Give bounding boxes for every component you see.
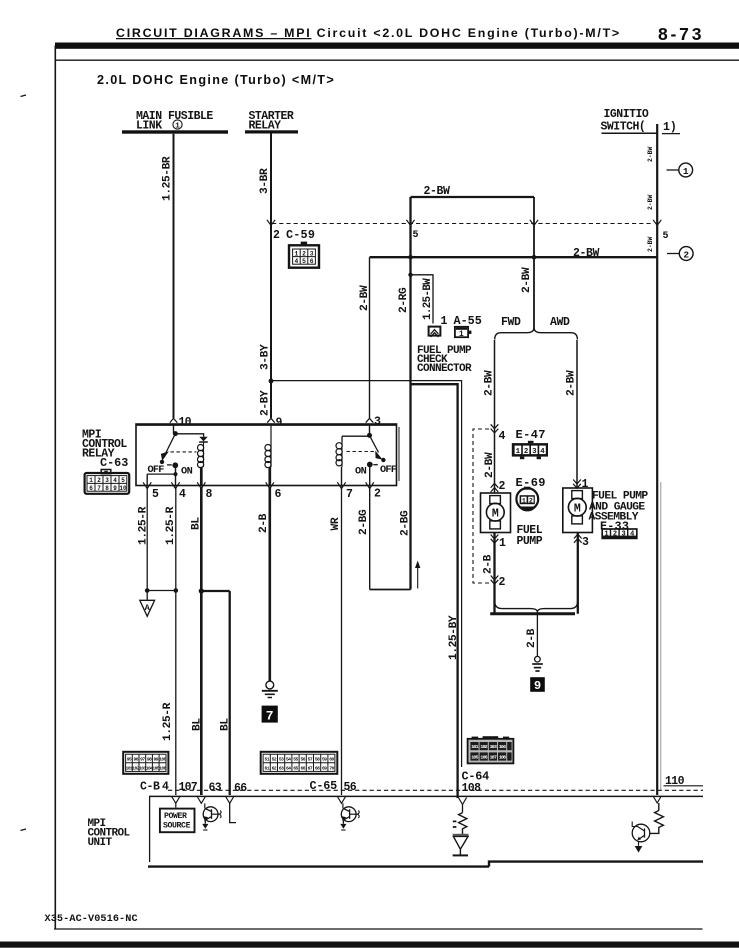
- svg-text:2.0L DOHC Engine (Turbo) <M/T>: 2.0L DOHC Engine (Turbo) <M/T>: [97, 73, 335, 87]
- svg-text:C-B: C-B: [140, 781, 160, 794]
- wire ON contact right down to pin 2: [369, 465, 371, 486]
- svg-text:BL: BL: [190, 517, 202, 530]
- ON contact dot left: [172, 462, 178, 468]
- svg-text:98: 98: [147, 757, 152, 763]
- ground symbol below bus: [532, 656, 543, 671]
- svg-text:57: 57: [308, 757, 313, 763]
- wire 1.25-BR from main fusible link to relay pin 10: [173, 134, 175, 418]
- common node dot left: [173, 431, 178, 436]
- svg-text:1: 1: [441, 315, 448, 328]
- svg-text:OFF: OFF: [380, 464, 397, 476]
- circled 1 at main fusible link: [173, 120, 182, 131]
- svg-text:CONNECTOR: CONNECTOR: [417, 363, 472, 375]
- svg-text:BL: BL: [220, 718, 232, 731]
- svg-text:5: 5: [413, 230, 419, 241]
- ground triangle A: [140, 591, 155, 617]
- svg-text:2: 2: [529, 497, 533, 504]
- chevron pin 107: [172, 797, 180, 804]
- wire 2-BW FWD branch: [494, 340, 496, 493]
- thick wire coil middle to pin 6: [268, 467, 271, 486]
- svg-text:2: 2: [97, 477, 101, 484]
- underline at 110: [664, 785, 704, 787]
- svg-text:2-BW: 2-BW: [647, 146, 654, 162]
- svg-text:1: 1: [459, 331, 464, 339]
- svg-text:66: 66: [300, 765, 305, 771]
- svg-text:BL: BL: [191, 718, 203, 731]
- connector C-63 icon: [85, 470, 130, 494]
- chevron relay pin 2: [366, 482, 374, 488]
- border left: [54, 46, 56, 930]
- svg-text:70: 70: [329, 765, 334, 771]
- svg-text:6: 6: [275, 488, 282, 501]
- svg-text:1: 1: [89, 477, 93, 484]
- relay coil left: [198, 442, 204, 468]
- circled terminal 2: [667, 247, 693, 261]
- chevron relay pin 4: [171, 482, 179, 488]
- fuel pump bottom bus line upper: [495, 601, 578, 612]
- svg-text:97: 97: [140, 757, 145, 763]
- fuel pump check connector A-55 text: [417, 314, 482, 375]
- svg-text:4: 4: [540, 448, 545, 456]
- svg-text:1: 1: [499, 537, 506, 550]
- svg-text:3: 3: [621, 531, 625, 539]
- wire BL branch down to pin 66: [229, 591, 231, 795]
- connector icon C-65: [261, 752, 338, 774]
- circled terminal 1: [667, 163, 693, 177]
- svg-text:62: 62: [272, 765, 277, 771]
- wire 2-BG pin 2 down: [369, 487, 371, 590]
- relay coil middle: [265, 445, 271, 468]
- svg-text:108: 108: [462, 782, 482, 795]
- svg-text:3: 3: [532, 448, 537, 456]
- wire BL pin 8 down to pin 63: [200, 487, 203, 796]
- svg-text:4: 4: [630, 531, 634, 539]
- svg-text:60: 60: [329, 757, 334, 763]
- svg-text:2: 2: [524, 448, 528, 456]
- svg-text:1.25-R: 1.25-R: [162, 702, 174, 741]
- svg-text:67: 67: [308, 765, 313, 771]
- wire ON contact down to pin 4: [175, 465, 177, 485]
- dashed enclosure FWD fuel pump: [473, 429, 489, 583]
- svg-text:54: 54: [286, 757, 291, 763]
- svg-text:4: 4: [499, 430, 506, 443]
- svg-text:58: 58: [315, 757, 320, 763]
- wire 3-BY from C-59 down: [270, 224, 272, 382]
- svg-text:10: 10: [119, 485, 127, 492]
- switch blade left with arrowhead: [161, 434, 176, 461]
- svg-text:2-BW: 2-BW: [566, 370, 578, 396]
- svg-text:7: 7: [266, 708, 274, 723]
- wire 2-B drop to ground: [536, 611, 538, 656]
- svg-text:2: 2: [374, 488, 381, 501]
- svg-text:2-BW: 2-BW: [484, 452, 496, 478]
- svg-text:1: 1: [683, 166, 689, 177]
- svg-text:63: 63: [279, 765, 284, 771]
- junction dot 2-RG x bus: [408, 255, 413, 260]
- svg-text:52: 52: [272, 757, 277, 763]
- MPI control unit box top: [149, 795, 703, 797]
- wire branch thin to x=461.5: [271, 381, 462, 767]
- svg-text:9: 9: [113, 485, 117, 492]
- svg-text:2: 2: [273, 229, 280, 242]
- fuel pump bottom bus line lower: [490, 612, 575, 615]
- common node dot right: [367, 433, 372, 438]
- svg-text:51: 51: [264, 757, 269, 763]
- svg-text:WR: WR: [330, 517, 342, 530]
- resistor pin 110: [650, 803, 664, 833]
- wire 2-BW AWD branch: [576, 340, 578, 488]
- resistor pin 108: [453, 805, 467, 836]
- current arrow up beside trunk: [415, 561, 420, 589]
- svg-text:64: 64: [286, 765, 291, 771]
- svg-text:2-BW: 2-BW: [573, 247, 600, 260]
- chevron double up at AWD pin 3: [574, 534, 582, 543]
- relay coil right: [336, 443, 342, 468]
- junction dot pin4 wire: [174, 588, 179, 593]
- border bottom: [54, 928, 703, 930]
- chevron on 2-RG at C-59 line: [406, 220, 414, 226]
- border top thin line: [55, 59, 739, 61]
- svg-text:65: 65: [293, 765, 298, 771]
- svg-text:61: 61: [264, 765, 269, 771]
- svg-text:1: 1: [604, 531, 608, 539]
- svg-text:5: 5: [152, 488, 159, 501]
- MPI control unit connector dashed line: [168, 789, 703, 791]
- svg-text:10: 10: [179, 416, 192, 429]
- connector C-59 dashed line: [272, 223, 651, 225]
- wire 1.25-R pin 4 down to pin 107: [175, 487, 177, 796]
- svg-text:4: 4: [113, 477, 117, 484]
- wire 2-BW top segment: [411, 196, 535, 198]
- svg-text:1.25-BY: 1.25-BY: [448, 615, 460, 660]
- svg-text:A-55: A-55: [454, 314, 482, 328]
- svg-text:6: 6: [310, 258, 314, 265]
- svg-text:2: 2: [683, 249, 689, 260]
- switch blade right with arrowhead: [370, 435, 383, 459]
- svg-text:5: 5: [121, 477, 125, 484]
- chevron on trunk at C-59 line: [530, 220, 538, 226]
- svg-text:2-RG: 2-RG: [398, 287, 410, 313]
- wire pin 5 inside relay: [146, 474, 148, 485]
- chevron double down at dashed box exit pin 2: [491, 576, 499, 585]
- OFF contact dot right: [381, 458, 385, 462]
- junction dot trunk x bus: [532, 255, 537, 260]
- svg-text:1.25-BW: 1.25-BW: [422, 278, 434, 320]
- svg-text:A: A: [145, 603, 151, 613]
- svg-text:106: 106: [159, 765, 167, 771]
- chevron relay pin 10: [170, 418, 178, 422]
- link pin2 wire to 2-RG trunk: [370, 589, 411, 591]
- svg-text:8-73: 8-73: [658, 24, 704, 44]
- chevron double down at AWD pump pin 1: [573, 480, 581, 489]
- svg-text:1: 1: [175, 123, 180, 131]
- crossbar pin5 to pin4 wire: [147, 473, 175, 475]
- BL branch crossbar: [201, 590, 229, 592]
- svg-text:107: 107: [490, 754, 497, 760]
- junction dot on pin4 wire: [174, 472, 178, 476]
- wire below FWD motor: [493, 533, 495, 614]
- svg-text:PUMP: PUMP: [517, 535, 543, 548]
- svg-text:2: 2: [613, 531, 617, 539]
- chevron pin 56: [337, 797, 345, 804]
- fuel pump and gauge assembly label: [589, 491, 649, 534]
- svg-text:5: 5: [663, 231, 669, 242]
- chevron double down at E-47 pin 4: [491, 424, 499, 433]
- svg-text:68: 68: [315, 765, 320, 771]
- svg-text:POWER: POWER: [164, 812, 187, 821]
- svg-text:1: 1: [516, 448, 521, 456]
- svg-text:3-BY: 3-BY: [260, 344, 272, 370]
- junction dot BL branch: [199, 588, 204, 593]
- svg-text:4: 4: [295, 258, 299, 265]
- svg-text:CIRCUIT DIAGRAMS – MPI Circuit: CIRCUIT DIAGRAMS – MPI Circuit <2.0L DOH…: [116, 26, 621, 40]
- wire 3-BR from starter relay to C-59: [270, 134, 272, 224]
- main fusible link label: [136, 110, 213, 133]
- chevron relay pin 7: [337, 482, 345, 488]
- svg-text:9: 9: [276, 417, 283, 430]
- chevron pin 66: [226, 797, 234, 804]
- svg-text:108: 108: [499, 754, 506, 760]
- chevron relay pin 5: [143, 482, 151, 488]
- connector E-33 icon: [602, 529, 637, 539]
- svg-text:SWITCH(: SWITCH(: [601, 121, 646, 134]
- svg-text:95: 95: [127, 757, 132, 763]
- svg-text:M: M: [574, 503, 581, 516]
- ground triangle pin 108: [453, 835, 469, 856]
- chevron double down at pin 1 FWD motor: [491, 535, 499, 544]
- bottom page rule thick: [0, 942, 739, 948]
- svg-text:9: 9: [534, 679, 541, 693]
- relay C-63 box: [136, 424, 399, 486]
- OFF contact dot left: [160, 460, 164, 464]
- ground reference box 9: [530, 677, 545, 693]
- svg-text:2: 2: [302, 250, 306, 257]
- connector C-59 icon: [289, 242, 319, 268]
- junction dot pin5 wire: [145, 588, 150, 593]
- svg-text:4: 4: [179, 488, 186, 501]
- svg-text:2: 2: [499, 576, 506, 589]
- svg-text:AWD: AWD: [550, 316, 570, 329]
- MPI control relay label: [82, 429, 128, 471]
- svg-text:63: 63: [209, 782, 222, 795]
- relay diode branch horizontal: [175, 434, 203, 437]
- MPI control unit label: [88, 818, 131, 849]
- transistor symbol pin 110: [632, 822, 650, 853]
- FUEL PUMP label: [517, 524, 543, 548]
- svg-text:2-BW: 2-BW: [424, 185, 451, 198]
- svg-text:UNIT: UNIT: [88, 837, 113, 849]
- svg-text:53: 53: [279, 757, 284, 763]
- svg-text:102: 102: [480, 744, 487, 750]
- connector E-47 icon: [512, 441, 548, 459]
- wire below AWD motor: [577, 533, 579, 614]
- connector icon bottom-left (C-B row): [123, 752, 168, 774]
- wire thick 1.25-BY branch from node on 2-RG wire: [411, 384, 458, 798]
- svg-text:2-B: 2-B: [526, 628, 538, 648]
- svg-text:101: 101: [471, 744, 478, 750]
- wire 2-RG vertical trunk: [409, 197, 411, 590]
- chevron pin 110: [653, 796, 661, 803]
- svg-text:96: 96: [133, 757, 138, 763]
- relay middle: wire pin9 down: [270, 424, 272, 467]
- fuel pump FWD motor: [481, 493, 511, 533]
- svg-text:56: 56: [344, 781, 357, 794]
- contact tick right: [373, 464, 378, 466]
- junction dot A-55 stub: [408, 273, 412, 277]
- svg-text:2-B: 2-B: [258, 513, 270, 533]
- crossbar pin5-pin4 wires: [147, 590, 176, 592]
- svg-text:X35-AC-V0516-NC: X35-AC-V0516-NC: [45, 914, 138, 925]
- MPI control unit box left: [149, 796, 151, 862]
- svg-text:6: 6: [89, 485, 93, 492]
- svg-text:55: 55: [293, 757, 298, 763]
- wire coil right to pin 7: [341, 467, 343, 486]
- svg-text:2-BY: 2-BY: [260, 390, 272, 416]
- svg-text:56: 56: [300, 757, 305, 763]
- wire trunk 2-BW to FWD/AWD: [533, 197, 535, 329]
- svg-text:2: 2: [499, 480, 506, 493]
- svg-text:IGNITIO: IGNITIO: [604, 108, 649, 121]
- starter relay bus bar: [245, 130, 298, 133]
- svg-text:4: 4: [162, 781, 169, 794]
- main fusible link bus bar: [122, 130, 228, 133]
- svg-text:ON: ON: [355, 466, 367, 478]
- chevron relay pin 6: [266, 482, 274, 488]
- FWD/AWD split bracket: [495, 329, 578, 340]
- diode symbol: [199, 437, 208, 442]
- chevron relay pin 9: [267, 418, 275, 422]
- MPI control unit box bottom right segment: [489, 862, 703, 867]
- svg-text:3: 3: [310, 250, 314, 257]
- MPI control unit box bottom left segment: [148, 865, 489, 867]
- svg-text:2-BW: 2-BW: [521, 267, 533, 293]
- ghost scan line right of ignition wire: [660, 482, 662, 790]
- svg-text:1): 1): [663, 121, 677, 134]
- svg-text:2-B: 2-B: [483, 554, 495, 574]
- ground symbol pin 6: [262, 681, 278, 697]
- svg-text:2-BG: 2-BG: [400, 510, 412, 536]
- chevron pin 108: [458, 798, 466, 805]
- svg-text:2-BG: 2-BG: [358, 509, 370, 535]
- dashed link blade-coil left: [171, 451, 197, 453]
- svg-text:3: 3: [582, 536, 589, 549]
- chevron relay pin 8: [197, 482, 205, 488]
- dashed link coil-blade right: [347, 451, 375, 453]
- svg-text:1.25-BR: 1.25-BR: [162, 156, 174, 201]
- margin tick 1: [21, 95, 27, 97]
- wire 1.25-R pin 5 down: [146, 487, 148, 591]
- svg-text:1.25-R: 1.25-R: [138, 506, 150, 545]
- svg-text:7: 7: [97, 485, 101, 492]
- chevron double up at E-69 pin 2: [491, 483, 499, 492]
- svg-text:69: 69: [322, 765, 327, 771]
- relay right: wire pin3 to common: [369, 424, 371, 435]
- A-55 connector icon square with X: [429, 327, 441, 337]
- svg-text:C-63: C-63: [100, 456, 128, 470]
- svg-text:C-59: C-59: [286, 228, 315, 242]
- chevron on ignition wire at C-59 line: [653, 220, 661, 226]
- wire 2-B pin 6 down to ground: [268, 487, 271, 682]
- svg-text:2-BW: 2-BW: [647, 194, 654, 210]
- wire WR pin 7 down to pin 56: [341, 487, 343, 796]
- chevron relay pin 3: [366, 418, 374, 422]
- power source box: [160, 802, 195, 832]
- ignition switch label: [601, 108, 681, 134]
- svg-text:100: 100: [159, 757, 167, 763]
- wire 2-BY from junction to relay pin 9: [270, 381, 272, 418]
- svg-text:ON: ON: [181, 466, 193, 478]
- svg-text:99: 99: [154, 757, 159, 763]
- wire 2-BW bus to ignition switch: [370, 256, 658, 258]
- ground reference box 7: [262, 706, 278, 724]
- wire riser relay pin3 to bus: [369, 257, 371, 418]
- thick wire coil to pin 8: [200, 467, 203, 486]
- svg-text:66: 66: [234, 782, 247, 795]
- svg-text:E-47: E-47: [516, 428, 546, 442]
- svg-text:SOURCE: SOURCE: [163, 822, 191, 831]
- chevron pin 63: [197, 797, 205, 804]
- stub pin 66: [230, 802, 236, 823]
- svg-text:106: 106: [480, 754, 487, 760]
- svg-text:2-BW: 2-BW: [484, 370, 496, 396]
- svg-text:1: 1: [295, 250, 299, 257]
- driver symbol pin 63: [202, 803, 221, 830]
- relay left: pin10 wire to common node: [173, 424, 175, 434]
- starter relay label: [249, 110, 294, 133]
- svg-text:1.25-R: 1.25-R: [165, 506, 177, 545]
- svg-text:C-65: C-65: [310, 779, 338, 793]
- fuel pump AWD motor: [563, 488, 593, 533]
- svg-text:3-BR: 3-BR: [259, 168, 271, 194]
- wire ignition switch 2-BW vertical: [656, 124, 658, 795]
- svg-text:1: 1: [582, 478, 589, 491]
- header rule thick: [55, 43, 739, 49]
- svg-text:8: 8: [105, 485, 109, 492]
- connector E-69 round icon: [516, 487, 538, 512]
- contact tick left: [167, 464, 172, 466]
- svg-text:7: 7: [346, 488, 353, 501]
- svg-text:8: 8: [206, 488, 213, 501]
- svg-text:103: 103: [490, 744, 497, 750]
- svg-text:5: 5: [302, 258, 306, 265]
- ON contact dot right: [367, 462, 373, 468]
- chevron on 3-BR at C-59: [267, 220, 275, 226]
- svg-text:2-BW: 2-BW: [359, 285, 371, 311]
- wire 1.25-BW stub to A-55: [411, 275, 434, 324]
- svg-text:105: 105: [471, 754, 478, 760]
- coil feed horizontal right: [342, 436, 370, 442]
- svg-text:1: 1: [522, 497, 526, 504]
- svg-text:2-BW: 2-BW: [647, 236, 654, 252]
- svg-text:107: 107: [179, 781, 198, 794]
- svg-text:M: M: [492, 508, 499, 521]
- svg-text:104: 104: [499, 744, 506, 750]
- svg-text:3: 3: [374, 416, 381, 429]
- A-55 pin icon rectangle: [455, 327, 472, 339]
- margin tick 2: [21, 829, 27, 831]
- svg-text:FWD: FWD: [501, 316, 521, 329]
- svg-text:59: 59: [322, 757, 327, 763]
- connector icon C-64: [468, 736, 514, 763]
- driver symbol pin 56: [340, 803, 359, 830]
- junction node on 3-BY wire: [269, 379, 274, 384]
- svg-text:3: 3: [105, 477, 109, 484]
